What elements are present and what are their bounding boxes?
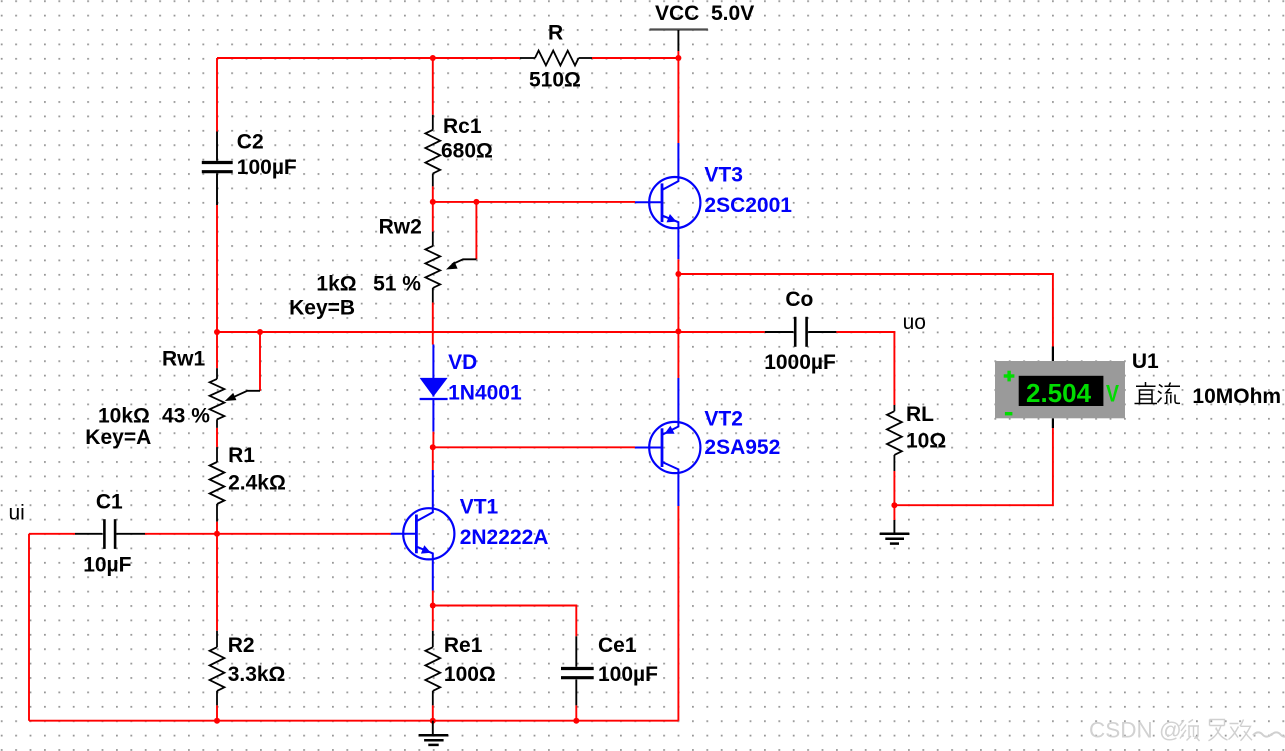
svg-text:R2: R2	[228, 634, 255, 657]
svg-text:C1: C1	[96, 491, 123, 514]
svg-text:510Ω: 510Ω	[529, 69, 581, 92]
ground (bottom, under Re1)	[419, 721, 449, 745]
wire mid rail (output bus)	[217, 331, 765, 333]
svg-text:2N2222A: 2N2222A	[460, 526, 549, 549]
transistor VT3 2SC2001	[635, 143, 700, 259]
wire VT1 emitter to node	[432, 591, 434, 606]
wire C1 left	[29, 533, 75, 535]
resistor Rc1	[425, 115, 440, 187]
wire top rail right	[592, 57, 678, 59]
junction VT1 base rail	[214, 531, 220, 537]
potentiometer Rw2	[425, 202, 476, 345]
wire VT3 collector feed	[677, 58, 679, 143]
power rail VCC	[650, 2, 755, 51]
capacitor Co	[765, 317, 837, 347]
wire top rail left	[217, 57, 520, 59]
watermark CSDN	[1089, 718, 1182, 743]
svg-text:100Ω: 100Ω	[444, 663, 496, 686]
transistor VT1 2N2222A	[391, 470, 455, 591]
junction mid rail / VT2 emitter	[675, 328, 681, 334]
svg-text:CSDN @: CSDN @	[1089, 718, 1182, 743]
svg-text:1N4001: 1N4001	[448, 382, 522, 405]
wire to meter minus	[894, 428, 1053, 505]
wire C2 top drop	[216, 58, 218, 132]
resistor R2	[210, 631, 225, 706]
svg-text:VT2: VT2	[704, 408, 743, 431]
junction bottom rail / Ce1	[573, 718, 579, 724]
svg-text:5.0V: 5.0V	[711, 2, 754, 25]
junction output top node	[675, 271, 681, 277]
wire R1 to base rail	[216, 522, 218, 534]
resistor R1	[210, 447, 225, 522]
svg-text:680Ω: 680Ω	[441, 140, 493, 163]
junction VT2 base rail	[430, 444, 436, 450]
svg-text:Ce1: Ce1	[598, 634, 637, 657]
junction VT3 base rail / Rw2 wiper	[473, 199, 479, 205]
wire VT2 collector down	[677, 506, 679, 721]
wire R2 top	[216, 534, 218, 631]
wire to meter plus	[678, 274, 1053, 347]
svg-text:VD: VD	[448, 351, 477, 374]
svg-text:Rw2: Rw2	[379, 216, 422, 239]
svg-text:RL: RL	[906, 403, 934, 426]
svg-text:VT1: VT1	[460, 496, 499, 519]
wire left vertical	[28, 534, 30, 721]
resistor R 510 ohm	[520, 51, 592, 66]
svg-text:100µF: 100µF	[237, 156, 297, 179]
capacitor C1	[75, 519, 145, 549]
svg-text:U1: U1	[1132, 350, 1159, 373]
svg-text:VT3: VT3	[704, 164, 743, 187]
svg-text:Key=B: Key=B	[289, 297, 355, 320]
resistor RL	[887, 405, 902, 471]
wire VT1 collector feed	[432, 447, 434, 470]
svg-text:2.4kΩ: 2.4kΩ	[228, 472, 286, 495]
junction mid rail / C2-Rw1	[214, 329, 220, 335]
wire Rc1 bottom	[432, 186, 434, 202]
potentiometer Rw1	[210, 332, 260, 447]
svg-text:R1: R1	[228, 444, 255, 467]
multimeter U1	[995, 347, 1125, 429]
resistor Re1	[425, 631, 440, 706]
wire R2 bottom	[216, 705, 218, 720]
svg-text:2SA952: 2SA952	[704, 436, 780, 459]
svg-text:2.504: 2.504	[1026, 378, 1092, 408]
svg-text:Re1: Re1	[444, 634, 483, 657]
wire VT2 base rail	[433, 446, 635, 448]
svg-text:100µF: 100µF	[598, 663, 658, 686]
junction bottom rail / R2	[214, 718, 220, 724]
svg-text:VCC: VCC	[655, 2, 699, 25]
capacitor Ce1	[561, 636, 594, 705]
wire output node link	[677, 274, 679, 331]
junction RL ground node	[891, 502, 897, 508]
svg-text:1000µF: 1000µF	[764, 351, 836, 374]
svg-text:ui: ui	[9, 502, 25, 525]
wire Re1 bottom	[432, 705, 434, 720]
svg-text:R: R	[548, 22, 563, 45]
svg-text:3.3kΩ: 3.3kΩ	[228, 663, 286, 686]
wire Co to RL	[836, 332, 894, 405]
wire VT3 base rail	[433, 201, 635, 203]
junction emitter node	[430, 603, 436, 609]
wire C2 bottom to mid rail	[216, 205, 218, 332]
junction top rail / VCC	[675, 55, 681, 61]
wire VT2 emitter feed	[677, 331, 679, 378]
wire C1 right to VT1 base	[145, 533, 391, 535]
junction VT3 base rail / Rc1	[430, 199, 436, 205]
wire Re1 top	[432, 606, 434, 631]
ground (under RL)	[880, 505, 910, 543]
svg-text:uo: uo	[903, 311, 926, 334]
diode VD 1N4001	[420, 345, 448, 432]
svg-text:43 %: 43 %	[162, 405, 210, 428]
label DC (zhiliu)	[1135, 382, 1181, 404]
watermark tildes	[1253, 732, 1285, 736]
svg-text:51 %: 51 %	[373, 273, 421, 296]
watermark CJK xu jin huan	[1180, 720, 1253, 742]
svg-text:2SC2001: 2SC2001	[704, 194, 792, 217]
svg-text:10µF: 10µF	[83, 554, 131, 577]
svg-text:10Ω: 10Ω	[906, 430, 946, 453]
svg-text:C2: C2	[237, 131, 264, 154]
wire emitter node to Ce1	[433, 606, 577, 637]
wire VCC drop	[677, 51, 679, 58]
wire bottom rail	[29, 720, 678, 722]
svg-text:10kΩ: 10kΩ	[98, 405, 150, 428]
svg-text:Rc1: Rc1	[443, 115, 482, 138]
junction top rail / Rc1	[430, 55, 436, 61]
svg-text:10MOhm: 10MOhm	[1192, 385, 1281, 408]
wire VD to VT2 base rail	[432, 432, 434, 448]
wire RL bottom	[893, 471, 895, 505]
transistor VT2 2SA952	[635, 378, 700, 506]
wire Rc1 top	[432, 58, 434, 115]
svg-text:Rw1: Rw1	[162, 348, 206, 371]
wire VT3 emitter down	[677, 259, 679, 274]
capacitor C2	[202, 132, 233, 206]
junction mid rail / Rw1 wiper	[257, 329, 263, 335]
svg-text:Co: Co	[785, 288, 813, 311]
wire Ce1 bottom	[575, 705, 577, 720]
junction bottom rail / Re1 ground	[430, 718, 436, 724]
svg-text:V: V	[1106, 381, 1119, 408]
svg-text:Key=A: Key=A	[85, 426, 151, 449]
svg-text:1kΩ: 1kΩ	[316, 273, 356, 296]
